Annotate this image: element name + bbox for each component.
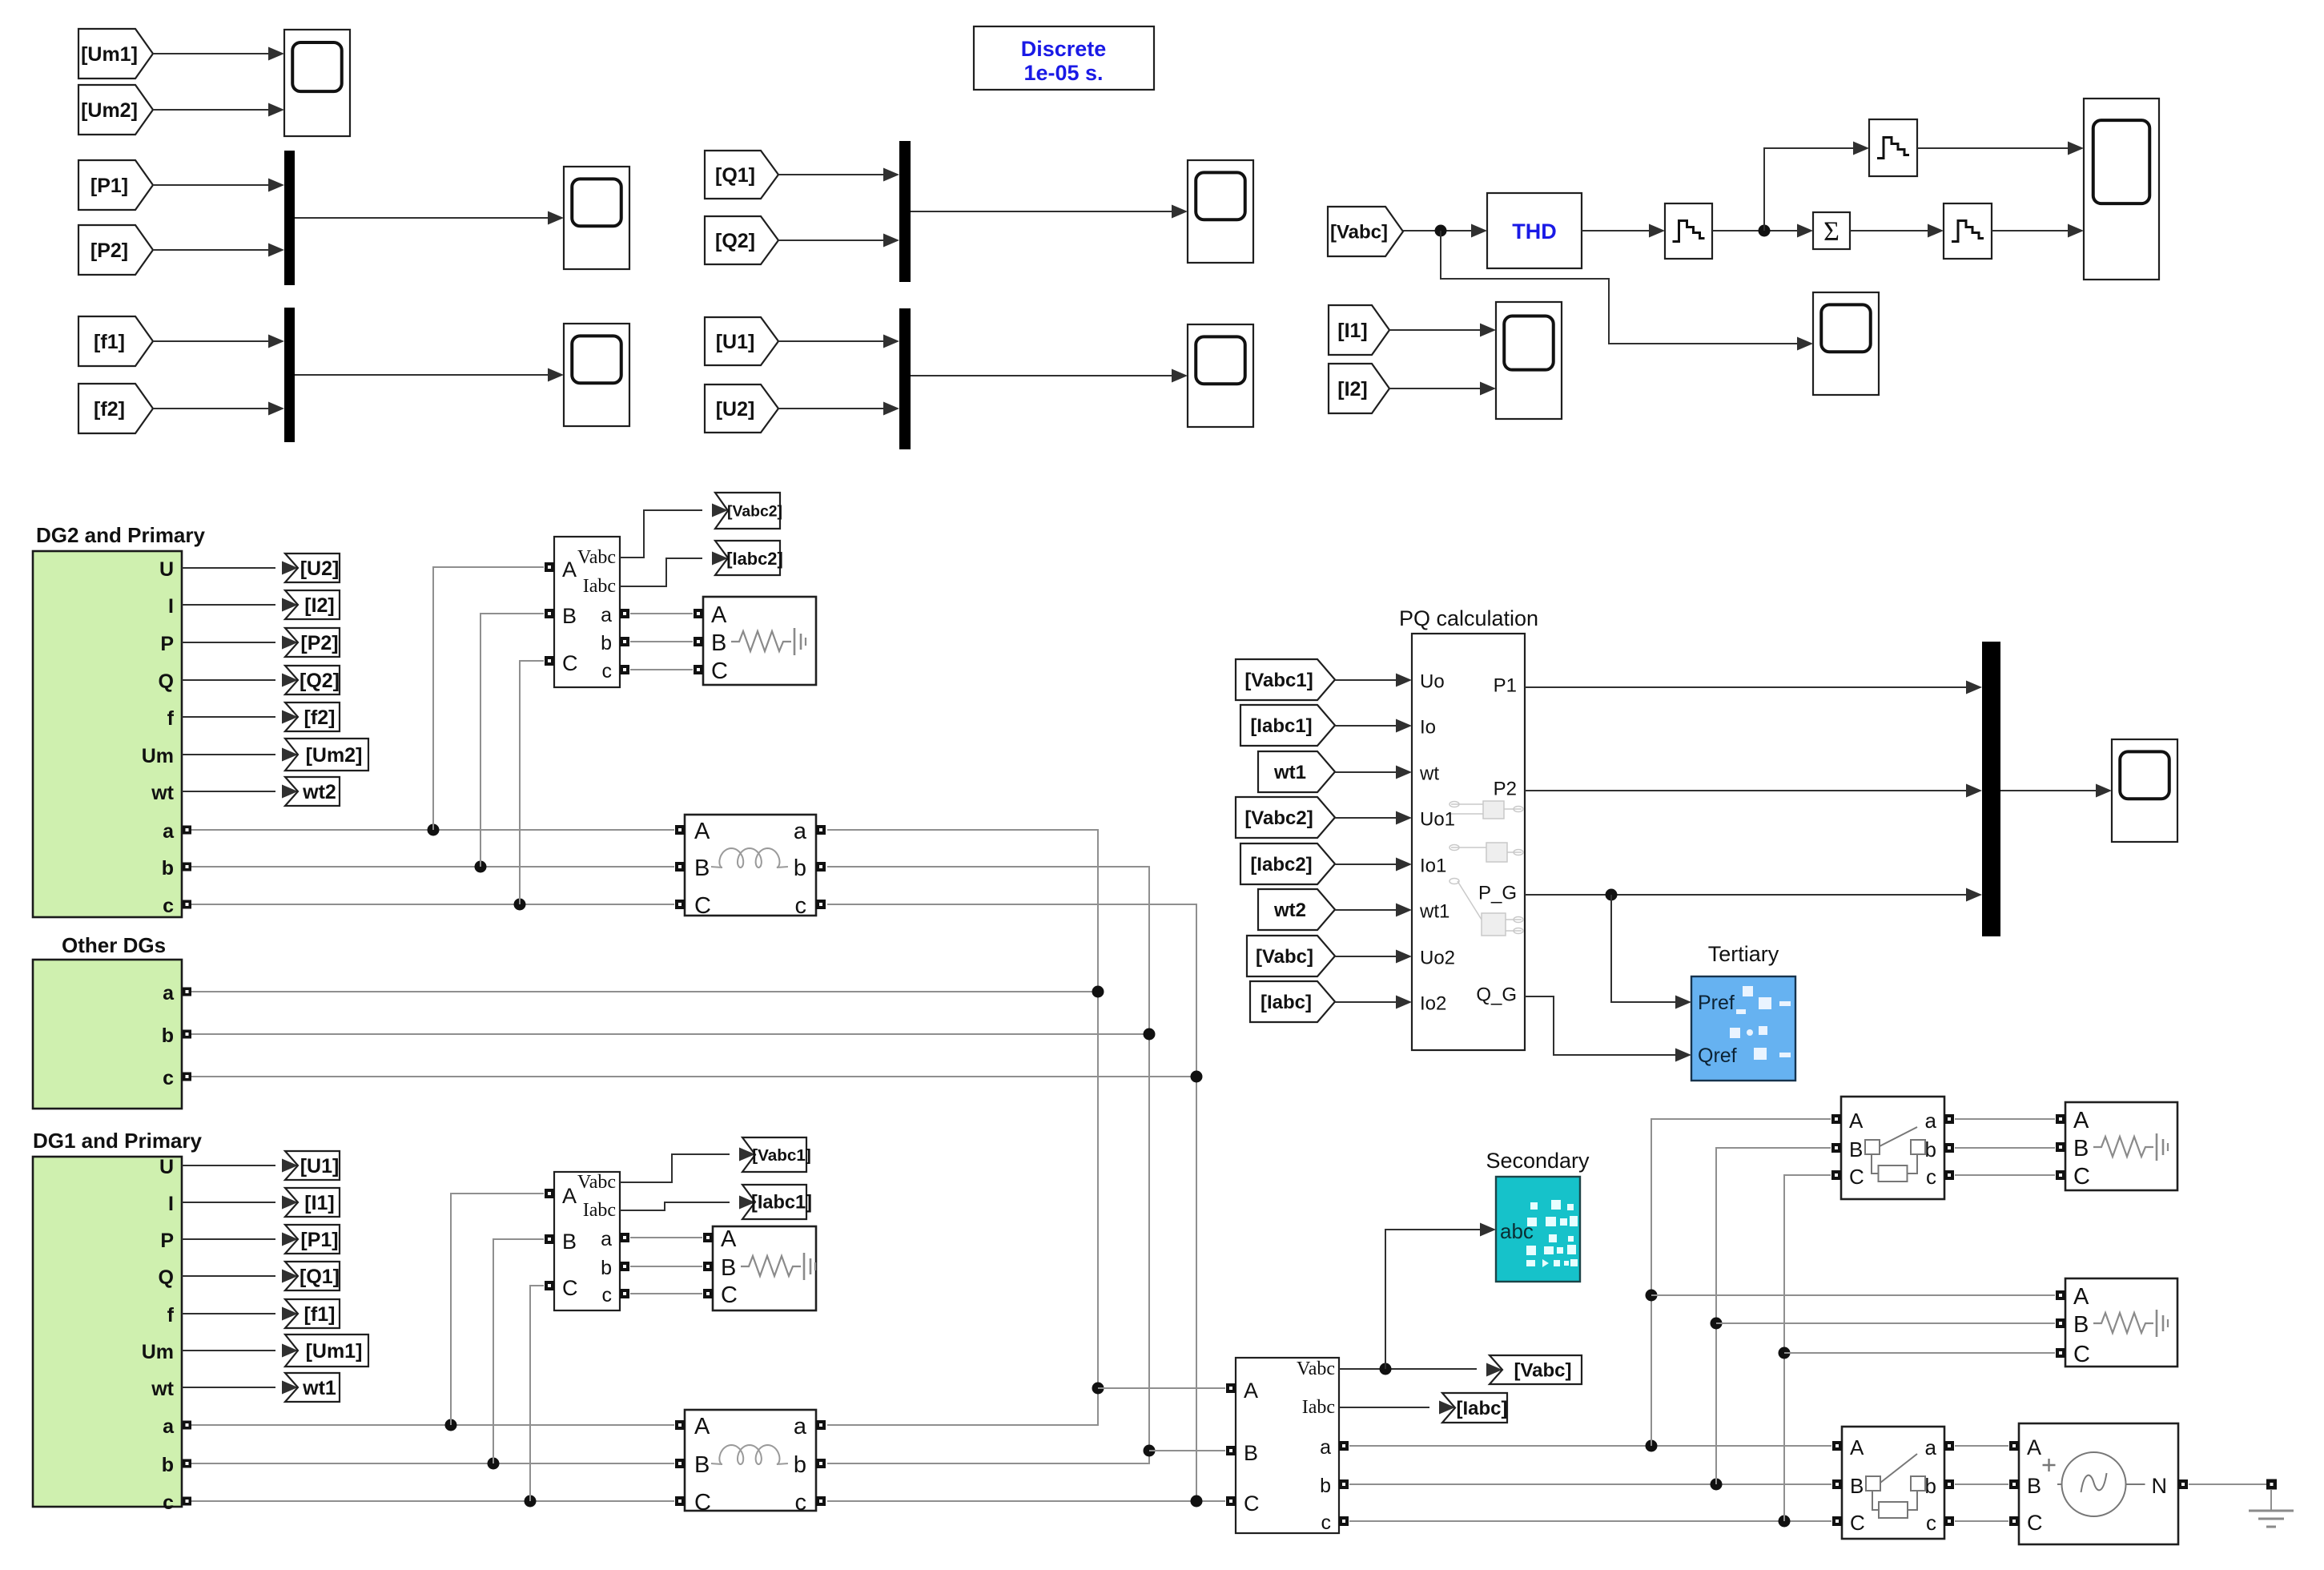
svg-text:[I1]: [I1]	[1337, 320, 1368, 342]
From tag [Vabc1] (PQ input)	[1236, 659, 1335, 700]
wire DG2 b to inductor B	[191, 866, 674, 868]
svg-text:wt2: wt2	[1273, 900, 1306, 921]
svg-text:[Vabc1]: [Vabc1]	[752, 1146, 811, 1165]
wire bus b vertical	[827, 867, 1149, 1451]
svg-text:c: c	[1926, 1511, 1936, 1535]
svg-text:B: B	[721, 1255, 736, 1281]
wire [Iabc2] to PQ	[1335, 858, 1412, 872]
svg-text:b: b	[162, 1025, 174, 1047]
svg-text:a: a	[601, 1228, 612, 1250]
svg-text:[I1]: [I1]	[304, 1192, 335, 1214]
svg-text:a: a	[601, 604, 612, 626]
svg-text:[Iabc2]: [Iabc2]	[726, 549, 783, 569]
wire tap to measurement1 B	[493, 1239, 544, 1463]
svg-text:[Um1]: [Um1]	[306, 1340, 363, 1363]
wire DG2 f to Goto	[182, 711, 298, 724]
wire measurement1 Vabc to Goto [Vabc1]	[620, 1148, 755, 1183]
scope U	[1188, 324, 1253, 427]
wire [I1] to scope I	[1389, 324, 1496, 337]
svg-text:[U1]: [U1]	[716, 331, 755, 353]
Goto tag [P1]	[285, 1225, 340, 1254]
wire DG2 U to Goto	[182, 562, 298, 575]
svg-text:B: B	[2073, 1136, 2089, 1161]
svg-text:A: A	[2073, 1284, 2089, 1310]
scope PQ	[2112, 739, 2177, 842]
wire DG2 P to Goto	[182, 636, 298, 650]
svg-text:C: C	[2073, 1342, 2090, 1367]
svg-text:[P1]: [P1]	[300, 1229, 338, 1251]
subsystem Tertiary	[1691, 976, 1795, 1081]
svg-text:[Q2]: [Q2]	[715, 230, 755, 252]
svg-text:b: b	[794, 855, 806, 881]
From tag [U1]	[705, 317, 778, 365]
wire [Vabc2] to PQ	[1335, 811, 1412, 825]
svg-text:[Iabc2]: [Iabc2]	[1250, 854, 1312, 876]
junction vertical 1 / load row A	[1646, 1290, 1658, 1302]
wire [Vabc] to PQ	[1335, 950, 1412, 964]
wire DG1 a to inductor A	[191, 1424, 674, 1426]
wire breaker2 a to source A	[1955, 1445, 2008, 1447]
wire [P2] to mux P	[153, 244, 284, 257]
wire DG1 f to Goto	[182, 1307, 298, 1321]
subsystem DG1 and Primary	[33, 1156, 191, 1514]
wire measurement main Iabc to Goto [Iabc]	[1339, 1401, 1455, 1415]
wire [Q2] to mux Q	[778, 234, 899, 248]
junction DG1 c tap	[525, 1496, 537, 1508]
wire breaker2 c to source C	[1955, 1520, 2008, 1522]
wire [I2] to scope I	[1389, 382, 1496, 396]
svg-text:[f2]: [f2]	[304, 706, 336, 729]
Goto tag wt1	[285, 1373, 340, 1402]
svg-text:a: a	[1925, 1435, 1937, 1459]
svg-text:1e-05 s.: 1e-05 s.	[1023, 61, 1103, 85]
wire vertical 2 to breaker load B	[1716, 1148, 1831, 1484]
wire DG1 Um to Goto	[182, 1344, 298, 1358]
svg-text:[f2]: [f2]	[94, 398, 125, 421]
svg-text:A: A	[721, 1226, 737, 1252]
junction bus c / Other DGs c	[1191, 1071, 1203, 1083]
three-phase VI measurement DG2	[545, 537, 629, 687]
wire measurement2 b to load DG2 B	[630, 641, 693, 642]
svg-text:[U1]: [U1]	[300, 1155, 340, 1177]
svg-text:Vabc: Vabc	[577, 1172, 616, 1193]
From tag [Vabc2] (PQ input)	[1236, 797, 1335, 838]
From tag [Q1]	[705, 151, 778, 199]
wire breaker1 b to RLC load top B	[1955, 1147, 2055, 1149]
svg-text:C: C	[2073, 1164, 2090, 1190]
wire DG1 wt to Goto	[182, 1381, 298, 1395]
wire measurement1 c to load DG1 C	[630, 1293, 702, 1294]
svg-text:c: c	[163, 1067, 174, 1089]
Goto tag [Um2]	[285, 739, 368, 771]
series RLC load top right	[2056, 1102, 2177, 1190]
svg-text:Um: Um	[142, 1341, 174, 1363]
ground symbol	[2249, 1511, 2294, 1527]
junction DG2 a tap	[428, 824, 440, 836]
svg-text:c: c	[602, 660, 613, 682]
junction P_G branch	[1606, 889, 1618, 901]
svg-text:b: b	[1320, 1475, 1331, 1497]
wire [Vabc1] to PQ	[1335, 674, 1412, 687]
Goto tag wt2	[285, 777, 340, 806]
svg-text:Uo1: Uo1	[1420, 809, 1455, 831]
svg-text:Secondary: Secondary	[1486, 1149, 1590, 1173]
Goto tag [Vabc1]	[742, 1137, 811, 1172]
svg-text:wt1: wt1	[1273, 762, 1306, 783]
svg-text:[Iabc1]: [Iabc1]	[1250, 715, 1312, 737]
Goto tag [Iabc]	[1442, 1393, 1508, 1423]
svg-text:Discrete: Discrete	[1021, 37, 1107, 61]
scope Vabc	[1813, 292, 1879, 395]
three-phase inductor DG1	[675, 1410, 826, 1516]
svg-text:B: B	[694, 855, 710, 881]
Goto tag [Q2]	[285, 666, 340, 694]
From tag wt2 (PQ input)	[1258, 889, 1335, 930]
wire vertical 3 to breaker load C	[1784, 1175, 1831, 1521]
From tag [Q2]	[705, 216, 778, 264]
svg-text:[Vabc2]: [Vabc2]	[727, 503, 782, 521]
wire measurement main b to breaker grid B	[1349, 1483, 1831, 1485]
rate transition 1	[1665, 203, 1712, 259]
junction row c / vertical 3	[1779, 1516, 1791, 1528]
svg-text:Σ: Σ	[1823, 217, 1839, 247]
svg-text:wt2: wt2	[302, 781, 336, 803]
svg-text:Q: Q	[159, 1266, 174, 1289]
svg-text:Q: Q	[159, 670, 174, 693]
svg-text:[U2]: [U2]	[300, 558, 340, 580]
wire source N to ground	[2189, 1483, 2266, 1485]
wire DG1 P to Goto	[182, 1233, 298, 1246]
Goto tag [f1]	[285, 1299, 340, 1328]
Goto tag [f2]	[285, 702, 340, 731]
junction vertical 2 / load row B	[1711, 1318, 1723, 1330]
junction on Vabc signal	[1435, 225, 1447, 237]
svg-text:C: C	[721, 1282, 738, 1308]
mux PQ (P1,P2,P_G)	[1982, 642, 2000, 936]
wire bus a to measurement main A	[1098, 1387, 1225, 1389]
wire DG2 Q to Goto	[182, 674, 298, 687]
svg-text:[Q2]: [Q2]	[300, 670, 340, 692]
wire mux P to scope P	[295, 211, 564, 225]
svg-text:DG1 and Primary: DG1 and Primary	[33, 1129, 203, 1153]
svg-text:[Vabc1]: [Vabc1]	[1244, 670, 1313, 691]
wire to RLC load mid A	[1651, 1294, 2055, 1296]
svg-text:B: B	[1850, 1474, 1864, 1498]
svg-text:P_G: P_G	[1478, 883, 1517, 904]
rate transition 3	[1944, 203, 1992, 259]
svg-text:Io2: Io2	[1420, 993, 1446, 1015]
wire ground stem	[2270, 1489, 2272, 1511]
svg-text:A: A	[711, 602, 727, 628]
wire [U1] to mux U	[778, 335, 899, 348]
svg-text:c: c	[1926, 1165, 1936, 1189]
svg-text:b: b	[162, 1454, 174, 1476]
subsystem PQ calculation	[1412, 634, 1525, 1050]
svg-text:C: C	[1850, 1511, 1865, 1535]
svg-text:B: B	[562, 1230, 577, 1254]
subsystem Secondary	[1496, 1177, 1580, 1282]
junction DG1 b tap	[488, 1458, 500, 1470]
THD block	[1487, 193, 1582, 268]
Goto tag [Um1]	[285, 1334, 368, 1367]
wire [f1] to mux f	[153, 335, 284, 348]
svg-text:[P1]: [P1]	[90, 175, 128, 197]
From tag [U2]	[705, 384, 778, 433]
wire measurement2 a to load DG2 A	[630, 613, 693, 614]
svg-text:A: A	[562, 558, 577, 582]
wire wt1 to PQ	[1335, 766, 1412, 779]
wire THD to rate transition 1	[1582, 224, 1665, 238]
From tag [P1]	[78, 160, 153, 210]
svg-text:c: c	[602, 1284, 613, 1306]
scope P	[564, 167, 629, 269]
Goto tag [Vabc2]	[715, 493, 782, 529]
svg-text:f: f	[167, 1304, 175, 1326]
svg-text:C: C	[562, 651, 578, 675]
wire mux U to scope U	[911, 369, 1188, 383]
From tag [Vabc] (PQ input)	[1247, 936, 1335, 976]
svg-text:Other DGs: Other DGs	[62, 933, 166, 957]
wire PQ P_G to mux PQ	[1525, 888, 1982, 902]
svg-text:b: b	[601, 1257, 612, 1279]
svg-text:c: c	[795, 1490, 807, 1516]
From tag [I1]	[1329, 305, 1389, 355]
wire rate transition 3 to scope THD input 2	[1992, 224, 2084, 238]
wire Other DGs c to bus	[191, 1076, 1196, 1077]
Goto tag [I2]	[285, 590, 340, 619]
svg-text:c: c	[163, 1491, 174, 1514]
series RLC load DG1	[703, 1226, 816, 1310]
svg-text:Iabc: Iabc	[1302, 1397, 1335, 1418]
svg-text:wt1: wt1	[302, 1377, 336, 1399]
From tag [P2]	[78, 225, 153, 275]
junction bus b / DG1 b	[1144, 1445, 1156, 1457]
svg-text:[P2]: [P2]	[300, 632, 338, 654]
wire P_G branch to Tertiary Pref	[1611, 895, 1691, 1009]
svg-text:[Vabc]: [Vabc]	[1330, 222, 1388, 244]
svg-text:[Vabc]: [Vabc]	[1256, 946, 1313, 968]
From tag [Vabc] (THD input)	[1328, 207, 1403, 256]
svg-text:B: B	[2027, 1474, 2041, 1498]
wire DG1 bus b to measurement main	[827, 1451, 1149, 1463]
Discrete solver annotation box	[974, 26, 1154, 90]
svg-text:A: A	[562, 1184, 577, 1208]
From tag [I2]	[1329, 364, 1389, 413]
svg-text:[U2]: [U2]	[716, 398, 755, 421]
wire Vabc branch to Secondary abc	[1385, 1223, 1496, 1370]
junction Vabc to Secondary	[1380, 1363, 1392, 1375]
svg-text:C: C	[694, 1490, 711, 1516]
svg-text:b: b	[162, 857, 174, 880]
wire tap to measurement2 A	[433, 567, 544, 830]
wire DG1 U to Goto	[182, 1159, 298, 1173]
junction vertical 3 / load row C	[1779, 1347, 1791, 1359]
junction after rate transition 1	[1759, 225, 1771, 237]
wire DG1 b to inductor B	[191, 1463, 674, 1464]
From tag [Iabc2] (PQ input)	[1240, 843, 1335, 884]
Goto tag [Iabc2]	[715, 541, 783, 575]
svg-text:b: b	[1925, 1474, 1936, 1498]
svg-text:Io1: Io1	[1420, 855, 1446, 877]
rate transition 2	[1869, 119, 1917, 176]
svg-text:A: A	[694, 819, 710, 844]
wire DG1 bus c to measurement main C	[827, 1500, 1225, 1502]
wire Other DGs a to bus	[191, 991, 1098, 992]
scope f	[564, 324, 629, 426]
wire vertical 1 to breaker load A	[1651, 1119, 1831, 1446]
Goto tag [U2]	[285, 554, 340, 582]
wire branch up to rate transition 2	[1764, 142, 1869, 231]
wire DG1 I to Goto	[182, 1196, 298, 1210]
svg-text:A: A	[2027, 1435, 2041, 1459]
wire PQ P1 to mux PQ	[1525, 681, 1982, 694]
wire measurement main Vabc to Goto [Vabc]	[1339, 1363, 1502, 1377]
wire [Iabc] to PQ	[1335, 996, 1412, 1009]
svg-text:[Iabc1]: [Iabc1]	[751, 1193, 812, 1214]
svg-text:[I2]: [I2]	[1337, 378, 1368, 401]
Goto tag [I1]	[285, 1188, 340, 1217]
svg-text:a: a	[163, 820, 175, 843]
junction DG2 c tap	[514, 899, 526, 911]
junction bus b / Other DGs b	[1144, 1029, 1156, 1041]
From tag [Um2]	[78, 85, 153, 135]
From tag [f2]	[78, 384, 153, 433]
From tag [Iabc1] (PQ input)	[1240, 705, 1335, 746]
svg-text:Uo: Uo	[1420, 671, 1445, 693]
svg-text:[f1]: [f1]	[94, 331, 125, 353]
svg-text:C: C	[1244, 1491, 1260, 1516]
junction row b / vertical 2	[1711, 1479, 1723, 1491]
From tag [Iabc] (PQ input)	[1250, 981, 1335, 1022]
svg-text:[Um1]: [Um1]	[81, 43, 138, 66]
svg-text:A: A	[1244, 1379, 1258, 1403]
wire measurement2 Vabc to Goto [Vabc2]	[620, 504, 728, 558]
svg-text:Vabc: Vabc	[1297, 1359, 1335, 1379]
svg-text:[Vabc]: [Vabc]	[1514, 1360, 1571, 1382]
wire tap to measurement1 C	[530, 1286, 544, 1501]
junction bus a / DG1 a	[1092, 1383, 1104, 1395]
svg-text:P: P	[160, 1230, 174, 1252]
svg-text:Iabc: Iabc	[583, 1200, 616, 1221]
svg-text:Io: Io	[1420, 717, 1436, 739]
Goto tag [Vabc]	[1490, 1355, 1582, 1384]
svg-text:[Um2]: [Um2]	[306, 744, 363, 767]
svg-text:Qref: Qref	[1698, 1045, 1737, 1067]
svg-text:P1: P1	[1494, 675, 1517, 697]
svg-text:N: N	[2152, 1474, 2168, 1498]
svg-text:A: A	[694, 1414, 710, 1439]
wire [f2] to mux f	[153, 402, 284, 416]
wire [Q1] to mux Q	[778, 168, 899, 182]
svg-text:wt: wt	[1419, 763, 1439, 785]
svg-text:a: a	[794, 1414, 807, 1439]
svg-text:C: C	[694, 893, 711, 919]
wire measurement1 b to load DG1 B	[630, 1266, 702, 1267]
sum block (Σ)	[1813, 212, 1850, 249]
svg-text:[I2]: [I2]	[304, 594, 335, 617]
scope Q	[1188, 160, 1253, 263]
Goto tag [U1]	[285, 1151, 340, 1180]
wire DG2 Um to Goto	[182, 748, 298, 762]
wire sum to rate transition 3	[1850, 224, 1944, 238]
svg-text:[Vabc2]: [Vabc2]	[1244, 807, 1313, 829]
From tag [Um1]	[78, 29, 153, 78]
wire to RLC load mid C	[1784, 1352, 2055, 1354]
wire bus a vertical	[827, 830, 1098, 1388]
wire [Um1] to scope Um	[153, 47, 284, 61]
svg-text:f: f	[167, 707, 175, 730]
junction bus a / Other DGs a	[1092, 986, 1104, 998]
wire DG2 a to inductor A	[191, 829, 674, 831]
svg-text:a: a	[794, 819, 807, 844]
wire tap to measurement2 B	[480, 614, 544, 867]
svg-text:c: c	[163, 895, 174, 917]
wire [Vabc] to THD	[1403, 224, 1487, 238]
wire DG1 Q to Goto	[182, 1270, 298, 1283]
wire tap to measurement1 A	[451, 1194, 544, 1425]
wire measurement1 Iabc to Goto [Iabc1]	[620, 1196, 755, 1211]
svg-text:Iabc: Iabc	[583, 576, 616, 597]
three-phase breaker 2	[1832, 1427, 1954, 1539]
svg-text:wt: wt	[151, 1378, 174, 1400]
wire DG2 wt to Goto	[182, 785, 298, 799]
svg-text:a: a	[1925, 1109, 1937, 1133]
From tag wt1 (PQ input)	[1258, 751, 1335, 792]
svg-text:a: a	[163, 1415, 175, 1438]
svg-text:wt: wt	[151, 782, 174, 804]
three-phase programmable source	[2009, 1423, 2188, 1544]
wire DG2 c to inductor C	[191, 904, 674, 905]
subsystem DG2 and Primary	[33, 551, 191, 917]
svg-text:C: C	[711, 658, 728, 684]
svg-text:Vabc: Vabc	[577, 547, 616, 568]
wire mux Q to scope Q	[911, 205, 1188, 219]
wire Other DGs b to bus	[191, 1033, 1149, 1035]
wire mux PQ to scope PQ	[2000, 784, 2112, 798]
svg-text:C: C	[2027, 1511, 2043, 1535]
svg-text:[Iabc]: [Iabc]	[1456, 1398, 1507, 1419]
junction row a / vertical 1	[1646, 1440, 1658, 1452]
scope Um (Um1/Um2)	[284, 30, 350, 136]
svg-text:b: b	[794, 1452, 806, 1478]
From tag [f1]	[78, 316, 153, 366]
subsystem Other DGs	[33, 960, 191, 1109]
wire measurement main a to breaker grid A	[1349, 1445, 1831, 1447]
series RLC load DG2	[694, 597, 816, 685]
wire rate transition 1 to sum	[1712, 224, 1813, 238]
wire breaker2 b to source B	[1955, 1483, 2008, 1485]
svg-text:B: B	[1849, 1137, 1863, 1161]
svg-text:U: U	[159, 1156, 174, 1178]
three-phase inductor DG2	[675, 815, 826, 919]
svg-text:A: A	[1849, 1109, 1864, 1133]
wire bus c vertical	[827, 904, 1196, 1501]
svg-text:[Um2]: [Um2]	[81, 99, 138, 122]
svg-text:B: B	[2073, 1312, 2089, 1338]
svg-text:Um: Um	[142, 745, 174, 767]
wire PQ P2 to mux PQ	[1525, 784, 1982, 798]
mux Q (Q1,Q2)	[899, 141, 911, 282]
svg-text:[Q1]: [Q1]	[715, 164, 755, 187]
svg-text:B: B	[562, 604, 577, 628]
svg-text:P2: P2	[1494, 779, 1517, 800]
svg-text:A: A	[2073, 1108, 2089, 1133]
wire [Um2] to scope Um	[153, 103, 284, 117]
three-phase breaker 1	[1831, 1097, 1954, 1199]
svg-text:wt1: wt1	[1419, 901, 1449, 923]
svg-text:b: b	[601, 632, 612, 654]
svg-text:B: B	[694, 1452, 710, 1478]
